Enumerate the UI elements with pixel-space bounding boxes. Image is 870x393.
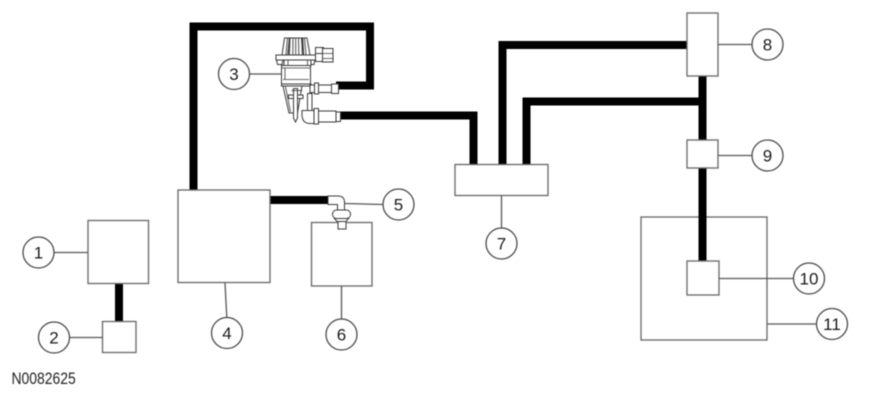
callout 3	[219, 59, 250, 90]
box 2	[103, 322, 137, 353]
box 11 (canister assembly outline)	[641, 217, 767, 340]
svg-text:3: 3	[229, 65, 238, 84]
leader line 8	[718, 44, 752, 46]
nozzle clamp band	[289, 95, 304, 99]
svg-text:7: 7	[497, 235, 506, 254]
valve assembly (item 3)	[276, 38, 341, 124]
callout 9	[752, 140, 783, 171]
callout 2	[39, 322, 70, 353]
valve electrical connector	[316, 48, 324, 54]
valve upper port tube	[310, 85, 332, 93]
elbow body	[328, 196, 345, 211]
callout 11	[817, 309, 848, 340]
leader line 1	[54, 252, 88, 254]
callout 4	[212, 318, 243, 349]
box 4	[178, 190, 270, 283]
lower port tube	[319, 111, 337, 122]
flange right foot	[310, 60, 316, 65]
svg-text:4: 4	[222, 324, 231, 343]
callout 1	[23, 237, 54, 268]
valve nozzle cone	[283, 86, 302, 113]
wire: hose from box 4 right to elbow fitting 5	[270, 196, 330, 204]
callout 10	[794, 263, 825, 294]
svg-text:5: 5	[394, 196, 403, 215]
nozzle needle	[294, 89, 298, 123]
grommet taper	[335, 219, 349, 222]
valve elbow pipe	[308, 94, 313, 111]
upper port end cap	[332, 84, 339, 94]
box 1	[88, 221, 149, 284]
box 10	[687, 261, 719, 295]
wire: hose from box 7 up and right to box 8	[503, 45, 688, 166]
leader line 11	[767, 323, 817, 325]
svg-text:2: 2	[49, 329, 58, 348]
elbow fitting (item 5)	[328, 196, 351, 229]
leader line 7	[501, 196, 503, 229]
svg-text:N0082625: N0082625	[12, 370, 76, 389]
wire: hose from box 4 top up, across, down to valve upper port	[194, 27, 371, 192]
valve neck	[284, 60, 311, 66]
lower port ring	[314, 109, 319, 125]
flange left foot	[277, 60, 284, 65]
callout 8	[752, 29, 783, 60]
box 6	[312, 223, 373, 287]
leader line 2	[70, 337, 103, 339]
leader line 3	[250, 73, 282, 75]
wire: vertical hose box 9 down to box 10	[699, 167, 707, 262]
callout 6	[326, 319, 357, 350]
valve cap	[282, 38, 310, 55]
svg-text:1: 1	[34, 244, 43, 263]
svg-text:6: 6	[337, 326, 346, 345]
grommet	[333, 210, 351, 219]
valve body	[282, 66, 311, 85]
leader line 6	[341, 286, 343, 319]
stem into box 6	[338, 222, 346, 230]
upper port ring	[315, 83, 319, 94]
callout 5	[383, 189, 414, 220]
box 9	[687, 140, 718, 168]
valve flange	[276, 55, 316, 60]
svg-text:11: 11	[823, 315, 841, 334]
svg-text:10: 10	[800, 270, 819, 289]
svg-text:9: 9	[763, 147, 772, 166]
wire: vertical hose box 8 to box 9	[699, 75, 707, 141]
leader line 10	[719, 278, 793, 280]
leader line 5	[345, 204, 383, 205]
leader line 4	[225, 283, 227, 318]
wire: hose from valve lower port right then down into box 7	[337, 116, 474, 167]
valve body lip	[282, 84, 312, 86]
wire: hose from box 1 down to box 2	[115, 283, 123, 322]
svg-text:8: 8	[763, 36, 772, 55]
leader line 9	[718, 155, 752, 157]
box 7	[455, 165, 548, 196]
lower port end cap	[336, 112, 341, 122]
callout 7	[486, 228, 517, 259]
wire: hose from box 7 up and right, tee into vertical run	[527, 102, 704, 167]
box 8	[687, 13, 718, 76]
